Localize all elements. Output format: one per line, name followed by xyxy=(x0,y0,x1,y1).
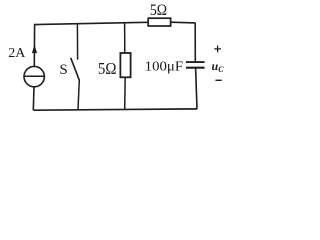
switch S: bottom stub wire xyxy=(78,80,79,110)
polarity minus sign for uC xyxy=(215,79,221,81)
wire: middle branch bottom stub xyxy=(124,77,127,109)
svg-text:5Ω: 5Ω xyxy=(98,59,117,78)
svg-text:100μF: 100μF xyxy=(145,59,184,74)
resistor R2 5ohm (vertical box) xyxy=(120,53,130,77)
switch S: blade (open) xyxy=(71,58,80,80)
svg-text:S: S xyxy=(59,62,67,78)
current source bar (chord through circle) xyxy=(24,75,44,77)
wire: middle branch top stub xyxy=(124,23,126,53)
svg-text:5Ω: 5Ω xyxy=(150,2,167,19)
switch S: top stub wire xyxy=(76,23,78,59)
capacitor C1 100uF: bottom plate xyxy=(186,67,205,69)
current source arrow (direction up) xyxy=(32,44,37,53)
wire: left branch lower xyxy=(32,87,35,110)
wire: right branch lower (capacitor to bottom) xyxy=(196,68,197,110)
polarity plus sign for uC xyxy=(214,48,221,50)
wire: top horizontal, left segment xyxy=(34,22,148,24)
capacitor C1 100uF: top plate xyxy=(186,61,205,63)
svg-text:2A: 2A xyxy=(8,46,26,61)
resistor R top 5ohm (horizontal box) xyxy=(148,18,170,26)
wire: bottom horizontal xyxy=(33,109,197,110)
wire: left branch upper (with source arrow) xyxy=(33,24,35,67)
wire: top horizontal, right segment xyxy=(171,21,196,24)
current source U1 circle (2A) xyxy=(24,66,44,86)
wire: right branch upper (to capacitor) xyxy=(194,23,196,62)
